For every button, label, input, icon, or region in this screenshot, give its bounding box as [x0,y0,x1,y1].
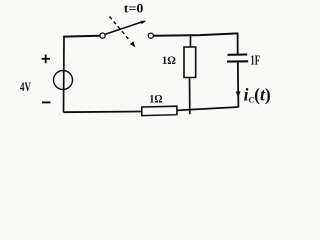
svg-text:1Ω: 1Ω [162,53,176,67]
svg-text:4V: 4V [20,79,31,94]
wire: left vertical (source branch) [63,37,66,113]
wire: capacitor branch top vertical [237,33,239,55]
wire: R1 bottom stub [189,78,191,115]
wire: capacitor branch bottom vertical [237,62,240,108]
svg-text:1F: 1F [250,52,260,67]
resistor R1 1ohm vertical box [184,47,196,78]
label: + polarity [42,55,51,64]
label: - polarity [42,101,51,103]
switch S1 closing motion dashed arrow [110,17,130,41]
wire: bottom left horizontal [64,111,142,114]
svg-text:t=0: t=0 [124,2,144,16]
wire: bottom right horizontal [177,107,239,110]
resistor R2 1ohm horizontal box [142,106,177,115]
node: top junction stub to R1 [189,34,191,47]
switch S1 right contact circle [148,33,153,38]
voltage source V1 circle [54,71,73,90]
wire: top left horizontal [63,35,100,38]
svg-text:1Ω: 1Ω [149,92,163,106]
current arrow ic(t) head (down) [236,91,241,97]
capacitor C1 top plate [228,53,248,55]
switch S1 blade (open, up-right) [105,22,142,34]
wire: top right horizontal [153,33,237,35]
svg-text:iC(t): iC(t) [244,84,271,104]
switch S1 left contact circle [100,33,105,38]
capacitor C1 bottom plate [227,60,248,62]
